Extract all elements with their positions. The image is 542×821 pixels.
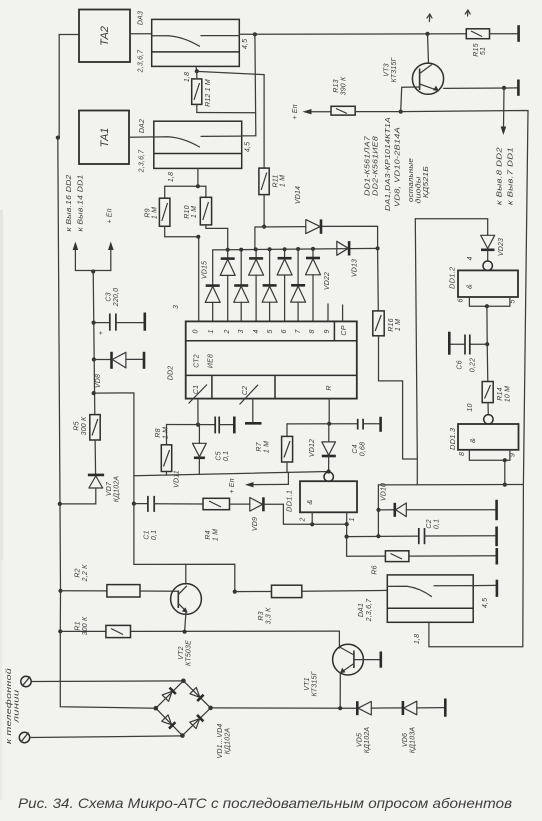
node emitter	[502, 86, 506, 90]
diode VD7	[60, 475, 121, 504]
svg-text:СР: СР	[341, 325, 348, 335]
node VD7 to left rail	[58, 502, 62, 506]
svg-text:+ Еп: + Еп	[292, 104, 299, 119]
svg-text:DD2-К561ИЕ8: DD2-К561ИЕ8	[373, 136, 380, 196]
svg-text:1 М: 1 М	[191, 206, 198, 218]
wire VT3 emitter right	[444, 87, 518, 90]
svg-text:3,3 К: 3,3 К	[266, 607, 273, 624]
svg-text:С2: С2	[242, 386, 249, 395]
common bar at C4	[379, 417, 382, 432]
svg-text:4,5: 4,5	[242, 39, 249, 49]
svg-text:1 М: 1 М	[264, 441, 271, 453]
svg-text:R10: R10	[184, 205, 191, 218]
svg-text:&: &	[305, 499, 314, 504]
opto-relay DA2	[139, 119, 252, 182]
common bar at R6	[495, 548, 498, 565]
svg-text:1,8: 1,8	[414, 634, 421, 644]
arrows to supply pins DD2/DD1	[66, 175, 114, 271]
wire DD1.3 output pins loop	[469, 450, 510, 487]
svg-text:1,8: 1,8	[184, 72, 191, 82]
capacitor C3	[94, 288, 144, 335]
node VD10 tap	[376, 508, 380, 512]
svg-text:VD8, VD10-2В14А: VD8, VD10-2В14А	[395, 127, 402, 207]
wire bottom line	[211, 707, 357, 709]
wire DD2 C1 pin down	[197, 399, 199, 425]
node DA3 4,5	[253, 32, 257, 36]
common bar at DA1 output	[496, 580, 499, 597]
svg-text:VT2: VT2	[178, 646, 185, 659]
svg-text:2,3,6,7: 2,3,6,7	[139, 149, 146, 174]
node DD2 R pin tap	[327, 422, 331, 426]
diode matrix top row 3	[277, 249, 292, 321]
opto-relay DA3	[138, 11, 250, 82]
svg-text:VD8: VD8	[95, 374, 102, 388]
wire lower rail with C2	[347, 519, 496, 544]
svg-text:R12 1 М: R12 1 М	[205, 79, 212, 107]
svg-text:5: 5	[510, 299, 517, 303]
node C3 tap	[92, 321, 96, 325]
arrow +Ep tap at DD1.1	[229, 472, 288, 493]
node VT1 emitter	[338, 706, 342, 710]
wire DA3 node down to DA2 output	[242, 34, 256, 135]
node VT3 collector top	[425, 32, 429, 36]
svg-text:1: 1	[208, 329, 215, 333]
diode VD23	[481, 235, 505, 261]
parts list text block	[365, 117, 431, 211]
resistor R2	[61, 564, 179, 597]
svg-text:DD1-К561ЛА7: DD1-К561ЛА7	[365, 135, 372, 196]
power tick above VT3	[427, 14, 432, 22]
node DD1.1 input	[327, 469, 331, 473]
svg-text:51: 51	[480, 47, 487, 55]
svg-text:&: &	[468, 438, 477, 443]
wire VT2 collector	[185, 564, 187, 584]
svg-text:КТ503Е: КТ503Е	[186, 640, 193, 666]
node VT2 emitter	[183, 630, 187, 634]
wire DA3 pins 1,8 stub	[195, 66, 198, 71]
resistor R3	[235, 585, 387, 624]
svg-text:VD5: VD5	[357, 733, 364, 747]
svg-text:4,5: 4,5	[245, 142, 252, 152]
svg-text:VD11: VD11	[174, 470, 181, 488]
svg-text:1 М: 1 М	[395, 319, 402, 331]
resistor R13	[331, 76, 401, 115]
common plate bar at DD2 C2	[245, 422, 262, 425]
svg-text:КД102А: КД102А	[364, 727, 371, 754]
svg-text:1,8: 1,8	[168, 172, 175, 182]
svg-text:1 М: 1 М	[213, 529, 220, 541]
wire VT3 collector	[428, 34, 429, 64]
wire DD2 pin9 stub	[327, 304, 329, 321]
opto-relay DA1	[358, 575, 496, 644]
terminal 1	[21, 676, 184, 686]
svg-text:&: &	[465, 284, 474, 289]
gate DD1.3	[448, 415, 519, 457]
wire VD14 row	[255, 227, 306, 249]
svg-text:R3: R3	[258, 611, 265, 620]
diode VD9	[250, 497, 284, 531]
svg-text:10 М: 10 М	[505, 386, 512, 402]
svg-text:R5: R5	[74, 421, 81, 430]
svg-text:4: 4	[253, 329, 260, 333]
diode matrix top row 2	[249, 249, 264, 321]
node VT3 base tap	[399, 110, 403, 114]
common bar at C3	[144, 313, 147, 331]
svg-text:R2: R2	[75, 568, 82, 577]
resistor R12	[192, 73, 212, 113]
diode VD8	[94, 352, 143, 388]
svg-text:R1: R1	[75, 621, 82, 630]
svg-text:R16: R16	[388, 318, 395, 331]
svg-text:VD7: VD7	[106, 481, 113, 496]
svg-text:3: 3	[238, 329, 245, 333]
diode VD15 (matrix top row 1)	[202, 250, 236, 322]
svg-text:300 К: 300 К	[82, 616, 89, 635]
svg-text:9: 9	[510, 453, 517, 457]
svg-text:КД521Б: КД521Б	[423, 166, 430, 198]
svg-text:+ Еп: + Еп	[107, 208, 114, 223]
telephone set TA1	[79, 111, 129, 165]
svg-text:С2: С2	[426, 519, 433, 528]
svg-text:к Выв.14 DD1: к Выв.14 DD1	[78, 175, 85, 232]
svg-text:DA1: DA1	[358, 603, 365, 617]
svg-text:R14: R14	[497, 387, 504, 400]
wire DD1.2 top net	[415, 219, 487, 236]
svg-text:9: 9	[324, 329, 331, 333]
svg-text:С5: С5	[216, 451, 223, 460]
svg-text:2: 2	[300, 517, 307, 522]
svg-text:0,1: 0,1	[434, 519, 441, 529]
svg-text:10: 10	[467, 403, 474, 411]
node lower rail	[376, 534, 380, 538]
capacitor C6	[449, 332, 487, 373]
svg-text:С1: С1	[193, 385, 200, 394]
svg-text:VD12: VD12	[309, 439, 316, 457]
svg-text:к телефонной: к телефонной	[5, 668, 13, 744]
diode VD10	[379, 483, 496, 517]
wire +Ep feed line	[134, 472, 329, 476]
svg-text:8: 8	[459, 452, 466, 456]
resistor R16	[373, 248, 418, 459]
node DD2 C1 pin tap	[196, 423, 200, 427]
node supply rail top	[91, 269, 95, 273]
wire DD2 CP stub	[342, 305, 344, 321]
svg-text:VD15: VD15	[202, 261, 209, 279]
svg-text:0,68: 0,68	[360, 442, 367, 456]
node R9 to DD2 pin0	[196, 235, 200, 239]
svg-text:VD22: VD22	[324, 272, 331, 290]
common bar at VD8	[143, 352, 146, 369]
svg-text:ТА1: ТА1	[99, 128, 111, 148]
svg-text:Рис. 34. Схема Микро-АТС с пос: Рис. 34. Схема Микро-АТС с последователь…	[18, 796, 512, 811]
capacitor C5	[215, 417, 233, 462]
diode VD14	[295, 186, 321, 234]
svg-text:КД102А: КД102А	[225, 728, 232, 755]
diode matrix bottom row 3	[262, 249, 277, 321]
wire supply rail	[93, 271, 95, 415]
svg-text:6: 6	[281, 329, 288, 333]
svg-text:VD1...VD4: VD1...VD4	[217, 724, 224, 759]
svg-text:1 М: 1 М	[280, 175, 287, 187]
svg-text:2,2 К: 2,2 К	[82, 564, 89, 582]
arrow +Ep at R13	[292, 104, 331, 119]
IC counter DD2	[168, 305, 357, 405]
common bar at C5	[233, 417, 236, 434]
svg-text:R9: R9	[145, 208, 152, 217]
svg-text:DD2: DD2	[168, 366, 175, 381]
svg-text:DA2: DA2	[139, 119, 146, 133]
node bus junctions	[226, 246, 380, 251]
svg-text:R: R	[326, 385, 333, 390]
node C6 tap	[485, 342, 489, 346]
svg-text:DD1.1: DD1.1	[285, 490, 294, 512]
svg-text:VD9: VD9	[252, 517, 259, 531]
common bar at VD6	[444, 699, 447, 717]
svg-text:4,5: 4,5	[482, 598, 489, 608]
diode matrix bottom row 2	[234, 250, 249, 322]
transistor VT3	[384, 56, 444, 94]
svg-text:0,22: 0,22	[470, 358, 477, 372]
svg-text:2: 2	[224, 329, 231, 334]
wire DA2 pins 1,8 stub and tie bar	[165, 168, 206, 188]
arrow to DD2 pin 8	[497, 88, 515, 205]
wire DD2 C2 pin to common plate	[252, 399, 254, 422]
resistor R14	[467, 344, 512, 414]
svg-text:1 М: 1 М	[152, 207, 159, 219]
svg-text:С3: С3	[106, 292, 113, 301]
common bar at R15	[517, 25, 520, 42]
resistor R15	[466, 29, 517, 57]
power tick above R15	[465, 10, 470, 16]
svg-text:6: 6	[458, 298, 465, 302]
svg-text:220,0: 220,0	[113, 288, 120, 308]
wire TA2 to DA3	[130, 33, 152, 35]
wire R13 line to right edge and down	[401, 111, 528, 647]
svg-text:к Выв.16 DD2: к Выв.16 DD2	[66, 175, 73, 232]
svg-text:КТ315Г: КТ315Г	[312, 670, 319, 696]
common bar at C2	[495, 527, 498, 547]
svg-text:2,3,6,7: 2,3,6,7	[366, 598, 373, 623]
svg-text:VD14: VD14	[295, 186, 302, 204]
svg-text:R6: R6	[372, 565, 379, 574]
label telephone line	[5, 668, 21, 744]
wire R pin net y424	[287, 423, 357, 425]
wire left rail	[58, 35, 156, 709]
diode VD5	[357, 701, 403, 753]
wire DD2 R pin down	[328, 399, 330, 424]
svg-text:ТА2: ТА2	[99, 26, 111, 46]
svg-text:DA3: DA3	[138, 11, 145, 25]
svg-text:VD10: VD10	[381, 483, 388, 501]
common bar at VT3 emitter	[517, 80, 520, 96]
svg-text:+: +	[98, 331, 105, 335]
wire DD1.2 output pins loop	[469, 297, 510, 344]
svg-text:1 М: 1 М	[163, 427, 170, 439]
resistor R8	[155, 427, 172, 475]
svg-text:+ Еп: + Еп	[229, 478, 236, 493]
capacitor C4	[352, 419, 380, 456]
diode matrix bottom row 4	[291, 249, 306, 321]
svg-text:С6: С6	[457, 360, 464, 369]
transistor VT2	[171, 584, 202, 666]
svg-text:КД102А: КД102А	[114, 476, 121, 503]
svg-text:VT1: VT1	[304, 677, 311, 690]
svg-text:ИЕ8: ИЕ8	[208, 354, 215, 368]
resistor R5	[74, 415, 101, 475]
svg-text:R11: R11	[273, 175, 280, 188]
wire TA1 to DA2	[129, 136, 154, 138]
resistor R7	[256, 424, 293, 473]
wire vertical from DD1.2 top to lower rail	[415, 219, 417, 485]
resistor R11	[259, 168, 287, 227]
svg-text:4: 4	[467, 256, 474, 260]
wire DD1.1 pins to rail	[310, 512, 349, 538]
wire collector node to R15	[428, 33, 467, 35]
wire DD2 pin0 up to R9 net	[198, 237, 200, 322]
svg-text:0,1: 0,1	[223, 451, 230, 461]
gate DD1.2	[448, 256, 519, 303]
wire R8 top corner node	[166, 425, 168, 445]
svg-text:8: 8	[309, 329, 316, 333]
svg-text:DD1.2: DD1.2	[448, 266, 457, 289]
svg-text:линии: линии	[14, 690, 21, 725]
svg-text:3: 3	[173, 305, 180, 309]
svg-text:2,3,6,7: 2,3,6,7	[138, 49, 145, 74]
svg-text:к Выв.7 DD1: к Выв.7 DD1	[508, 147, 515, 205]
svg-text:R8: R8	[155, 428, 162, 437]
svg-text:0: 0	[193, 329, 200, 333]
node C1 tap on x134 rail	[132, 502, 136, 506]
common bar at VT1 base	[379, 652, 382, 668]
svg-text:390 К: 390 К	[341, 76, 348, 95]
svg-text:R15: R15	[473, 43, 480, 56]
svg-text:СТ2: СТ2	[194, 354, 201, 368]
svg-text:КТ315Г: КТ315Г	[391, 56, 398, 82]
node VD8 tap	[92, 357, 96, 361]
resistor R9	[145, 186, 199, 237]
node TA1 tap	[56, 136, 60, 140]
diode matrix bottom row 1	[205, 250, 220, 322]
svg-text:VD6: VD6	[402, 733, 409, 747]
svg-text:VD23: VD23	[498, 238, 505, 256]
capacitor C1	[134, 496, 203, 540]
diode VD12	[309, 424, 336, 472]
svg-text:С1: С1	[144, 530, 151, 539]
resistor R1	[60, 616, 339, 638]
node R1 rail tap	[58, 629, 62, 633]
svg-text:DD1.3: DD1.3	[448, 427, 457, 450]
wire timing node y424	[167, 424, 216, 426]
terminal 2	[19, 732, 182, 742]
wire diode matrix bus	[213, 248, 378, 250]
svg-text:остальные: остальные	[408, 158, 415, 202]
svg-text:VT3: VT3	[384, 63, 391, 76]
svg-text:0,1: 0,1	[151, 530, 158, 540]
wire lower feedback rail y485	[378, 484, 523, 486]
svg-text:R13: R13	[333, 79, 340, 92]
transistor VT1	[304, 631, 380, 708]
node R3 tie	[233, 590, 237, 594]
node R12 top	[195, 69, 199, 73]
wire rail corner down to VD10 and C2	[377, 485, 379, 536]
svg-text:DA1,DA3-КР1014КТ1А: DA1,DA3-КР1014КТ1А	[385, 117, 392, 211]
svg-text:1: 1	[349, 517, 356, 521]
common bar at VD10	[495, 500, 498, 520]
diode VD13	[337, 241, 359, 277]
svg-text:к Выв.8 DD2: к Выв.8 DD2	[497, 147, 504, 205]
wire R12 bottom to DA3 output column	[197, 112, 256, 114]
svg-text:5: 5	[267, 329, 274, 333]
wire VD9 to DD1.1 input pins	[283, 504, 312, 524]
node R11 bottom	[262, 225, 266, 229]
resistor R10	[184, 186, 228, 249]
bridge rectifier VD1-VD4	[154, 679, 232, 759]
svg-text:диоды: диоды	[415, 176, 423, 204]
svg-text:300 К: 300 К	[81, 416, 88, 435]
svg-text:С4: С4	[352, 444, 359, 453]
gate DD1.1	[285, 472, 358, 523]
resistor R6	[347, 537, 496, 575]
resistor R4	[203, 498, 250, 541]
svg-text:R7: R7	[256, 441, 263, 451]
diode VD11	[174, 425, 207, 488]
telephone set TA2	[79, 10, 130, 63]
wire DA3 output to VT3 collector node	[239, 33, 427, 35]
node branch to timing chain	[92, 391, 96, 395]
wire base corner	[401, 87, 420, 112]
svg-text:VD13: VD13	[352, 259, 359, 277]
svg-text:КД103А: КД103А	[410, 727, 417, 754]
svg-text:R4: R4	[205, 530, 212, 539]
diode VD22 (matrix top row 4)	[306, 249, 332, 322]
diode VD6	[402, 701, 445, 753]
node R2 rail tap	[58, 589, 62, 593]
wire R12 top to R11	[197, 71, 264, 168]
wire branch to x134 rail	[94, 393, 235, 592]
